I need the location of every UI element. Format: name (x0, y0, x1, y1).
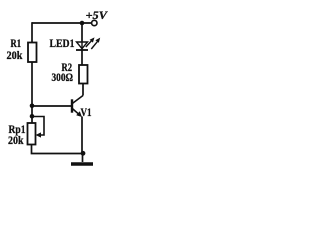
transistor V1 collector diagonal (72, 96, 83, 104)
svg-text:20k: 20k (8, 133, 24, 147)
node junction dot top (LED branch) (80, 21, 85, 26)
LED light arrow 2 (91, 38, 100, 49)
svg-text:20k: 20k (7, 48, 23, 62)
LED light arrow 1 (86, 37, 95, 47)
wire R1 bottom lead down to base node (31, 62, 33, 123)
wire ground stub (82, 154, 84, 163)
LED LED1 diode triangle (77, 42, 88, 50)
svg-text:300Ω: 300Ω (52, 70, 74, 84)
wiper arrowhead pointing left into Rp1 (36, 132, 42, 137)
wire emitter down to ground node (81, 117, 83, 154)
wire base horizontal to transistor (32, 105, 71, 107)
node junction dot base branch (30, 104, 35, 109)
transistor V1 emitter diagonal with arrow (72, 109, 82, 118)
wire LED cathode to R2 (81, 50, 83, 65)
resistor R1 (28, 43, 37, 63)
wire R1 top lead (31, 22, 33, 42)
node junction dot wiper branch (30, 114, 35, 119)
transistor V1 base bar (71, 99, 73, 112)
svg-text:LED1: LED1 (50, 36, 75, 50)
+5V terminal circle (92, 20, 97, 25)
potentiometer Rp1 (28, 123, 36, 145)
LED cathode bar (76, 49, 88, 51)
node ground junction dot (81, 151, 86, 156)
wire top horizontal from R1 top to +5V terminal (32, 22, 91, 24)
ground symbol bar (71, 162, 93, 166)
wire potentiometer wiper loop (32, 117, 44, 136)
resistor R2 (79, 65, 88, 84)
svg-text:+5V: +5V (86, 8, 109, 22)
wire R2 bottom lead (collector) (82, 84, 84, 96)
wire Rp1 bottom lead and bottom rail to ground node (32, 145, 85, 154)
wire LED top lead (81, 23, 83, 43)
